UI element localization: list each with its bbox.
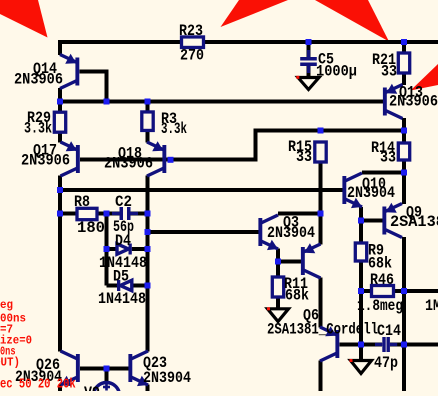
wire right rail dot-R21 [402,42,406,53]
svg-text:2SA1381_Cordell: 2SA1381_Cordell [267,321,378,339]
ground at C5 [298,78,319,90]
resistor R8 [77,208,97,219]
svg-text:D5: D5 [113,268,129,286]
svg-text:3.3k: 3.3k [161,120,187,138]
transistor Q9 2SA1381 [382,203,402,238]
wire output line left [340,343,383,347]
voltage source V9 [94,383,120,396]
svg-text:eg: eg [0,298,13,312]
resistor R14 [398,143,409,160]
red pin dot C5 ground [296,76,299,79]
wire Q3 collector [278,212,321,216]
wire mid rail Q18C down to Q23C [146,176,150,352]
wire Q23 base stub [107,367,129,371]
wire R3-Q18E [146,131,150,143]
junction D4 left [104,246,110,252]
transistor Q6 2SA1381 upper [301,243,321,278]
junction wire1/R21 [401,39,407,45]
wire D4 anode lead [107,247,118,251]
junction R15 top [318,128,324,134]
wire R3 top stub [146,102,150,113]
transistor Q14 2N3906 [60,54,79,89]
svg-text:3.3k: 3.3k [24,120,52,138]
red spike right-side [411,64,438,91]
transistor Q6 2SA1381 lower [320,326,339,361]
svg-text:R46: R46 [370,271,394,289]
red pin dot R11 ground [267,307,270,310]
wire Q26 base [80,367,107,371]
junction wire1/C5 [306,39,312,45]
wire C2 right lead [131,212,148,216]
resistor R21 [398,53,409,73]
wire D5 cathode lead [107,284,118,288]
wire V+ rail top right segment [204,40,438,44]
svg-text:33: 33 [296,148,312,166]
junction D5 right [145,283,151,289]
resistor R15 [315,142,326,162]
wire branch rail x106 [105,214,109,286]
junction output/ground [358,342,364,348]
svg-text:V9: V9 [84,384,100,391]
wire R14-Q9E [402,160,406,204]
svg-text:2N3904: 2N3904 [347,184,395,202]
wire tail-current line (to Q10 base) [60,188,343,192]
wire Q17/Q18 base to R15/R14 jog [80,131,404,160]
wire Q23 emitter down [146,385,150,392]
junction output/C14 right [401,342,407,348]
wire R46 right lead [394,289,438,293]
resistor R46 [372,286,394,297]
wire VAS rail R15-TaE [319,162,323,245]
junction R14 bottom/Q10C/Q9E [401,170,407,176]
svg-text:R23: R23 [179,22,203,40]
svg-text:180: 180 [77,219,105,237]
diode D5 [117,280,132,291]
wire Q6 collector down [319,361,323,392]
transistor Q17 2N3906 [61,141,80,176]
wire left rail Q14C-R29 [58,88,62,112]
junction C2 right [145,211,151,217]
ground at R11 [268,309,289,322]
svg-text:D4: D4 [115,232,131,250]
svg-text:2N3906: 2N3906 [104,155,153,173]
resistor R23 [182,37,204,48]
svg-text:1N4148: 1N4148 [98,290,146,308]
wire output line mid [390,343,404,347]
capacitor C5 [300,50,317,73]
wire Q9 base [361,219,383,223]
svg-text:2N3906: 2N3906 [21,152,70,170]
wire Q10E-R9 stub [359,207,363,243]
transistor Q18 2N3906 [147,141,166,176]
svg-text:2N3904: 2N3904 [143,369,191,387]
junction Q3 collector/VAS rail [318,211,324,217]
junction wire4 start [57,187,63,193]
wire R11 top stub [276,262,280,278]
wire Ta base [278,260,301,264]
wire Q26 emitter down [58,385,62,392]
resistor R3 [142,112,153,131]
ground at output line [351,361,372,374]
svg-text:270: 270 [180,47,204,65]
capacitor C14 [375,337,397,352]
transistor Q3 2N3904 [258,215,278,250]
svg-text:C14: C14 [377,322,401,340]
junction Q18 base [168,157,174,163]
red pin dot output ground [350,359,353,362]
wire D5 anode lead [132,284,148,288]
red spike top-left [0,0,48,38]
junction Ta base/R11 [275,259,281,265]
wire R8 left lead [60,212,77,216]
wire TaC-Q6E [319,278,323,328]
wire C5 top stub [307,42,311,57]
wire Q14 base leg [80,72,107,102]
svg-text:1.8meg: 1.8meg [357,297,403,315]
junction R8 left [57,211,63,217]
red spike top-center [221,0,289,27]
svg-text:R8: R8 [74,193,90,211]
capacitor C2 [112,207,138,220]
junction Q10E/Q9 base/R9 [358,218,364,224]
wire Q3 base [148,230,259,234]
wire bias line node B (Q14 collector to Q13 base) [60,100,383,104]
svg-text:33: 33 [381,63,397,81]
wire R8-C2 [97,212,120,216]
junction D4 right [145,246,151,252]
diode D4 [117,244,132,255]
svg-text:ec 50 20 20k: ec 50 20 20k [0,376,76,391]
junction Q26/Q23 base/V9 [104,366,110,372]
wire R46 left lead [361,289,372,293]
junction Q3 base tap [145,229,151,235]
wire output line right [404,343,438,347]
svg-text:2N3906: 2N3906 [389,93,438,111]
wire Q9 collector down [402,237,406,391]
wire left rail R29-Q17E [58,133,62,143]
wire Q3 emitter leg [276,249,280,262]
svg-text:68k: 68k [285,287,309,305]
junction wire2/left rail [57,99,63,105]
wire V+ rail top left segment [60,42,182,55]
wire D4 cathode lead [132,247,148,251]
junction R46 left [358,288,364,294]
svg-text:2N3906: 2N3906 [14,71,63,89]
svg-text:33: 33 [380,149,396,167]
wire V9 stub [105,369,109,383]
junction R8/C2 mid [104,211,110,217]
wire R21-Q13E [402,73,406,85]
resistor R11 [272,277,283,297]
transistor Q13 2N3906 [383,84,403,119]
wire ground stub under output line [359,346,363,359]
svg-text:68k: 68k [368,255,392,273]
wire Q13C-R14 [402,118,406,143]
svg-text:C2: C2 [115,193,132,211]
wire R9 rail to output [359,291,363,345]
svg-text:47p: 47p [374,354,398,372]
junction wire2/R3 [145,99,151,105]
wire C5 bottom stub [307,66,311,77]
wire left rail Q17C down to Q26C [58,176,62,352]
resistor R9 [355,243,366,261]
svg-text:2N3904: 2N3904 [267,224,315,242]
svg-text:1000µ: 1000µ [316,63,357,81]
transistor Q23 2N3904 [128,351,148,386]
junction R14 top [401,128,407,134]
red spike top-right [315,0,389,42]
resistor R29 [54,112,65,132]
transistor Q26 2N3904 [61,351,80,386]
junction wire2/Q14 base leg [104,99,110,105]
wire R11 bottom stub [276,297,280,309]
wire Q10 collector [362,171,404,175]
transistor Q10 2N3904 [342,173,362,208]
svg-text:1MEG: 1MEG [425,297,438,315]
wire R9 bottom stub [359,261,363,291]
junction R46 right [401,288,407,294]
svg-text:OUT): OUT) [0,356,20,370]
svg-text:2SA1381: 2SA1381 [390,213,438,231]
